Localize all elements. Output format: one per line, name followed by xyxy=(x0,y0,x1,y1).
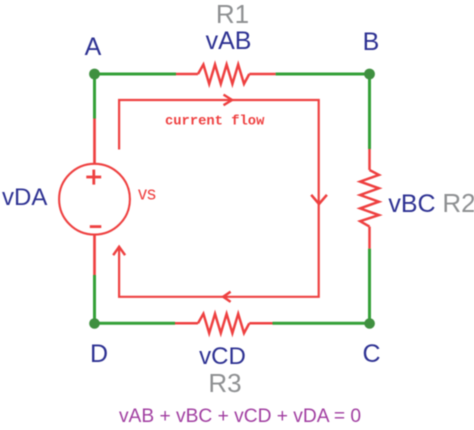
svg-text:vDA: vDA xyxy=(2,184,47,211)
svg-text:vCD: vCD xyxy=(199,343,246,370)
wire B to R2 (right top green) xyxy=(368,74,371,149)
svg-text:vBC: vBC xyxy=(388,190,435,218)
svg-text:current flow: current flow xyxy=(165,114,265,130)
node A xyxy=(89,69,100,80)
resistor R3 xyxy=(175,314,273,333)
resistor R1 xyxy=(176,65,276,84)
wire D to R3 (bottom left green) xyxy=(95,322,176,325)
arrow up (left of loop) xyxy=(113,247,125,255)
wire source leads (left red) xyxy=(93,119,96,276)
resistor R2 xyxy=(360,149,379,249)
svg-text:B: B xyxy=(363,28,380,56)
svg-text:A: A xyxy=(85,33,102,61)
plus sign xyxy=(86,170,101,185)
wire R2 to C (right bottom green) xyxy=(368,249,371,324)
wire A to R1 (top left green) xyxy=(95,73,177,76)
svg-text:vAB + vBC + vCD + vDA = 0: vAB + vBC + vCD + vDA = 0 xyxy=(119,406,361,427)
wire R1 to B (top right green) xyxy=(276,73,370,76)
voltage source VS circle xyxy=(59,164,130,235)
node C xyxy=(364,318,375,329)
wire R3 to C (bottom right green) xyxy=(273,322,370,325)
minus sign xyxy=(90,225,102,228)
svg-text:vs: vs xyxy=(138,184,156,204)
svg-text:D: D xyxy=(90,340,108,368)
arrow right (top of loop) xyxy=(224,95,233,106)
node D xyxy=(89,318,100,329)
svg-text:R3: R3 xyxy=(208,368,241,398)
node B xyxy=(364,69,375,80)
wire A to source (left top green) xyxy=(93,74,96,119)
arrow down (right of loop) xyxy=(311,195,327,204)
svg-text:C: C xyxy=(362,340,380,368)
arrow left (bottom of loop) xyxy=(223,292,230,302)
current flow loop wire xyxy=(119,100,319,297)
wire source to D (left bottom green) xyxy=(93,275,96,323)
svg-text:vAB: vAB xyxy=(206,27,252,55)
svg-text:R1: R1 xyxy=(216,0,249,29)
svg-text:R2: R2 xyxy=(442,188,474,218)
